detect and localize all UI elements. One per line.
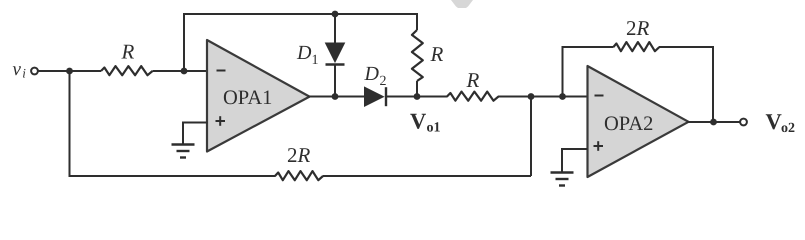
node D junction with bottom 2R rail: [528, 93, 535, 100]
node F junction with top 2R feedback: [559, 93, 566, 100]
op-amp U1 OPA1: [207, 40, 310, 152]
diode D1 cathode wire to node E: [334, 65, 336, 97]
resistor R1: [101, 66, 153, 75]
wire node B up to top feedback rail: [183, 14, 185, 71]
wire node A down to bottom rail: [69, 71, 71, 176]
svg-text:OPA1: OPA1: [223, 87, 272, 109]
label R2 value R: [430, 42, 444, 66]
svg-text:D: D: [364, 63, 380, 85]
wire D2 cathode to R3: [386, 96, 448, 98]
svg-text:R: R: [466, 68, 480, 92]
svg-text:o1: o1: [427, 120, 441, 135]
svg-text:1: 1: [312, 53, 319, 68]
wire node F up to 2R feedback: [562, 47, 564, 97]
wire top feedback rail: [183, 13, 417, 15]
label 2R top: [626, 16, 650, 40]
node E junction OPA1 output with D1: [332, 93, 339, 100]
label Vo1: [410, 108, 441, 135]
label Vo2: [766, 109, 796, 136]
wire OPA2 noninverting input to ground stem: [562, 149, 588, 172]
wire bottom rail right segment: [323, 175, 531, 177]
svg-text:OPA2: OPA2: [604, 113, 653, 135]
wire 2R feedback left segment: [562, 46, 614, 48]
node B junction at OPA1 inverting input: [181, 68, 188, 75]
diode D1: [326, 43, 345, 65]
label 2R bottom: [287, 143, 311, 167]
input terminal vi: [31, 68, 38, 75]
wire R2 to node Vo1: [416, 81, 418, 97]
output terminal Vo2: [740, 119, 747, 126]
op-amp U2 OPA2: [588, 66, 689, 177]
wire OPA2 output to terminal: [687, 121, 740, 123]
svg-text:R: R: [121, 40, 135, 64]
wire bottom rail up to node D: [530, 97, 532, 177]
wire input to R1: [38, 70, 101, 72]
wire 2R feedback right segment down to output: [659, 47, 713, 122]
label D2: [364, 63, 387, 89]
resistor R4 2R feedback: [613, 42, 659, 51]
diode D1 anode wire from node C: [334, 14, 336, 43]
label D1: [296, 42, 319, 68]
resistor R3: [447, 92, 499, 101]
watermark fragment top center: [451, 0, 473, 8]
svg-text:v: v: [13, 59, 22, 80]
svg-text:V: V: [410, 108, 426, 133]
svg-text:V: V: [766, 109, 782, 134]
ground G2: [551, 173, 574, 186]
svg-text:i: i: [22, 66, 26, 81]
wire OPA1 output to D2: [308, 96, 365, 98]
svg-text:2R: 2R: [287, 143, 311, 167]
svg-text:2R: 2R: [626, 16, 650, 40]
svg-text:o2: o2: [781, 121, 795, 136]
node Vo1 junction: [414, 93, 421, 100]
svg-text:D: D: [296, 42, 312, 64]
label vi: [13, 59, 27, 81]
node C junction top rail to D1: [332, 11, 339, 18]
label R1 value R: [121, 40, 135, 64]
resistor R5 2R bottom: [275, 171, 323, 180]
wire top rail down into R2: [416, 13, 418, 30]
diode D2: [365, 87, 387, 106]
node A junction at vi: [66, 68, 73, 75]
wire R1 to node B: [153, 70, 208, 72]
resistor R2 vertical R: [412, 30, 423, 81]
label R3 value R: [466, 68, 480, 92]
ground G1: [172, 145, 195, 158]
node G junction output with feedback: [710, 119, 717, 126]
svg-text:2: 2: [380, 74, 387, 89]
svg-text:R: R: [430, 42, 444, 66]
wire OPA1 noninverting input to ground stem: [183, 123, 208, 144]
wire R3 to OPA2 inverting input: [498, 96, 588, 98]
wire bottom rail left segment: [69, 175, 276, 177]
